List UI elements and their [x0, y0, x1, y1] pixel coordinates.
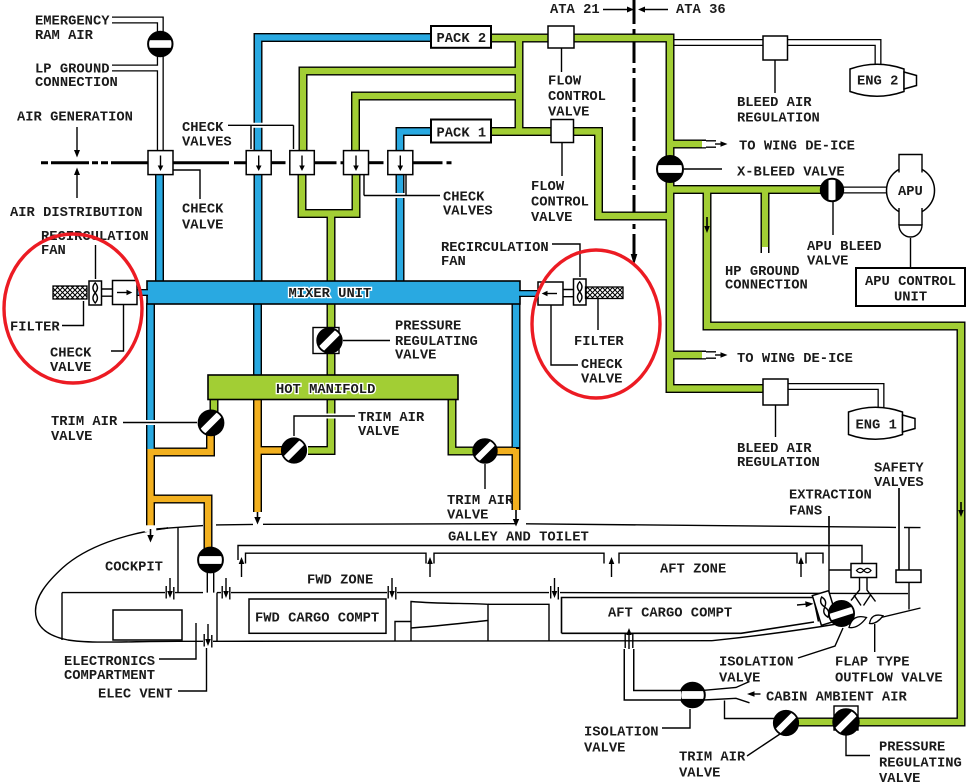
svg-text:FAN: FAN	[41, 244, 66, 259]
svg-text:EXTRACTION: EXTRACTION	[789, 489, 872, 504]
pipe orange galley riser	[512, 448, 521, 510]
AFT cargo compartment box	[562, 598, 819, 634]
svg-text:TRIM AIR: TRIM AIR	[447, 494, 514, 509]
svg-text:VALVE: VALVE	[531, 211, 572, 226]
valve: X-bleed valve	[657, 156, 683, 182]
svg-text:TRIM AIR: TRIM AIR	[51, 415, 118, 430]
pipe orange cockpit riser	[146, 450, 155, 529]
right assembly connector	[563, 290, 574, 297]
leader bleed air regulation ENG2	[774, 61, 776, 94]
leader flap type outflow valve	[874, 624, 876, 652]
node ATA 21/36 boundary dash-dot line	[633, 0, 636, 254]
pipe orange fwd zone riser	[253, 398, 262, 512]
vent symbol fwd zone floor	[388, 578, 396, 600]
svg-text:VALVE: VALVE	[182, 219, 223, 234]
wire cabin ambient air duct (white pipe)	[629, 649, 681, 695]
svg-text:RAM AIR: RAM AIR	[35, 29, 94, 44]
svg-text:APU BLEED: APU BLEED	[807, 240, 882, 255]
svg-text:REGULATING: REGULATING	[879, 756, 962, 771]
pipe blue PACK1 supply riser	[400, 132, 431, 153]
valve: APU bleed valve (vertical band)	[821, 179, 843, 201]
pipe blue below check valve 1	[155, 173, 164, 282]
flow control valve box (pack 2)	[548, 26, 574, 48]
svg-text:ISOLATION: ISOLATION	[719, 656, 794, 671]
wire branch to TAV4	[725, 701, 775, 719]
svg-text:COCKPIT: COCKPIT	[105, 561, 163, 576]
svg-text:VALVE: VALVE	[50, 361, 91, 376]
cabin air duct segment 3	[619, 553, 797, 563]
pipe green PACK2 output to X-bleed and ENG1 bleed regulation	[491, 38, 764, 389]
svg-text:VALVE: VALVE	[719, 671, 760, 686]
vent arrow up into aft cargo	[625, 628, 633, 649]
wing box fairing right	[488, 604, 549, 641]
engine ENG 1	[849, 407, 916, 439]
svg-text:CHECK: CHECK	[182, 121, 224, 136]
leader trim air valve left	[123, 420, 197, 425]
fuselage nose outline	[36, 528, 179, 642]
svg-text:AIR GENERATION: AIR GENERATION	[17, 111, 133, 126]
leader safety valves	[898, 488, 900, 570]
leader X-bleed valve	[684, 168, 722, 170]
check valve box 2	[246, 151, 271, 175]
vent symbol at x226 floor	[222, 578, 230, 600]
svg-text:TRIM AIR: TRIM AIR	[679, 751, 746, 766]
outflow isolation valve (tilted striped circle)	[828, 601, 855, 626]
svg-text:CABIN AMBIENT AIR: CABIN AMBIENT AIR	[766, 691, 907, 706]
svg-text:ATA 21: ATA 21	[550, 3, 600, 18]
pipe green wing de-ice stub lower	[670, 351, 706, 360]
valve: pressure regulating valve PRV1 (white square + striped circle)	[313, 328, 342, 354]
pipe blue mixer right stub	[519, 290, 539, 297]
svg-text:FLOW: FLOW	[548, 74, 582, 89]
svg-text:VALVES: VALVES	[874, 476, 924, 491]
svg-text:CHECK: CHECK	[182, 203, 224, 218]
mixer unit bar	[147, 281, 520, 304]
wire ENG1 bleed duct (white)	[788, 387, 881, 409]
svg-text:BLEED AIR: BLEED AIR	[737, 442, 812, 457]
outflow isolation fan (tilted)	[812, 591, 837, 626]
left assembly connector	[102, 289, 113, 296]
open end caps (white patches)	[702, 141, 707, 147]
svg-text:ISOLATION: ISOLATION	[584, 726, 659, 741]
leader trim air valve middle	[294, 416, 355, 436]
PACK 2 box	[431, 26, 491, 48]
riser arrow 1	[239, 557, 245, 577]
wire emergency ram air white duct	[112, 20, 160, 152]
pipe green PACK1 line to FCV1	[491, 127, 551, 136]
isolation valve outlet taper to cabin air inlet	[704, 682, 750, 691]
e-bay aft partition	[216, 593, 218, 642]
leader FCV2	[561, 49, 563, 73]
leader trim air valve TAV3	[484, 464, 486, 489]
svg-text:CHECK: CHECK	[581, 358, 623, 373]
check valve box 1 (on air generation line)	[148, 151, 173, 175]
svg-text:AIR DISTRIBUTION: AIR DISTRIBUTION	[10, 206, 142, 221]
svg-text:AFT CARGO COMPT: AFT CARGO COMPT	[608, 607, 732, 622]
outflow duct V	[854, 595, 871, 606]
pipe blue mixer left downcomer	[146, 303, 155, 452]
highlight ellipse left (red)	[4, 234, 142, 383]
left check valve (recirculation)	[113, 281, 138, 305]
right filter F2	[586, 287, 624, 299]
svg-text:VALVE: VALVE	[879, 772, 920, 784]
leader check valves right	[364, 175, 440, 196]
valve: trim air valve TAV1	[199, 410, 224, 435]
pipe green HP ground connection stub	[761, 190, 770, 254]
wing box fairing left step	[395, 622, 411, 642]
leader electronics compartment	[159, 623, 196, 659]
svg-text:REGULATION: REGULATION	[737, 456, 820, 471]
check valve box 3	[290, 151, 315, 175]
valve: hot air shutoff near cockpit	[198, 548, 223, 573]
valve: pressure regulating valve PRV2 (bottom)	[833, 706, 859, 735]
extraction fan outlet funnel	[851, 578, 876, 602]
leader PRV1	[343, 340, 390, 342]
flow arrow in green V2	[704, 217, 710, 233]
pipe green branch at y96 to check valve 4	[356, 96, 520, 152]
leader check valves upper	[228, 125, 294, 149]
arrow orange into galley	[513, 510, 519, 527]
right recirculation assembly: check valve	[538, 282, 563, 305]
fuselage cabin floor	[62, 593, 908, 594]
svg-text:UNIT: UNIT	[894, 290, 927, 305]
APU control unit box	[856, 268, 965, 306]
left recirculation assembly: filter F1	[53, 286, 87, 299]
color fills for pipes	[491, 38, 764, 389]
svg-text:APU CONTROL: APU CONTROL	[865, 275, 956, 290]
electronics compartment box	[113, 610, 182, 640]
leader isolation valve lower	[662, 709, 690, 728]
leader APU control unit	[910, 238, 912, 267]
wire APU duct (white)	[843, 187, 888, 194]
pipe blue PACK2 supply riser	[258, 38, 431, 153]
vent symbol aft zone floor	[551, 578, 559, 600]
svg-text:GALLEY AND TOILET: GALLEY AND TOILET	[448, 530, 589, 545]
svg-text:PRESSURE: PRESSURE	[879, 741, 945, 756]
svg-text:VALVE: VALVE	[447, 509, 488, 524]
flow arrow in green V3	[958, 502, 964, 517]
svg-text:APU: APU	[898, 185, 923, 200]
svg-text:VALVE: VALVE	[51, 430, 92, 445]
svg-text:TO WING DE-ICE: TO WING DE-ICE	[739, 140, 855, 155]
arrow cabin ambient air	[747, 691, 761, 697]
svg-text:COMPARTMENT: COMPARTMENT	[64, 669, 155, 684]
wire wing de-ice connector upper	[706, 141, 716, 147]
hot manifold bar	[208, 375, 458, 400]
riser arrow 2	[427, 557, 433, 577]
svg-text:REGULATION: REGULATION	[737, 112, 820, 127]
leader filter left	[62, 301, 84, 326]
svg-text:AFT ZONE: AFT ZONE	[660, 563, 726, 578]
pipe green crossfeed T branch down	[515, 38, 524, 132]
extraction fan duct vertical	[828, 516, 830, 593]
svg-text:TO WING DE-ICE: TO WING DE-ICE	[737, 352, 853, 367]
svg-text:FLAP TYPE: FLAP TYPE	[835, 656, 910, 671]
leader trim air valve TAV4	[747, 734, 780, 756]
svg-text:CHECK: CHECK	[443, 190, 485, 205]
check valve box 4	[344, 151, 369, 175]
svg-text:TRIM AIR: TRIM AIR	[358, 411, 425, 426]
wing box fairing main	[411, 602, 488, 642]
fuselage cockpit partition	[177, 528, 179, 593]
svg-text:X-BLEED VALVE: X-BLEED VALVE	[737, 166, 845, 181]
air generation arrow down	[74, 127, 80, 158]
svg-text:CONTROL: CONTROL	[548, 90, 606, 105]
valve: isolation valve (bottom)	[680, 683, 705, 708]
pipe orange TAV1 outlet	[150, 434, 211, 452]
svg-text:FWD ZONE: FWD ZONE	[307, 573, 373, 588]
fuselage belly line	[178, 640, 712, 643]
valve: trim air valve TAV3	[473, 439, 497, 463]
arrow orange into fwd zone	[254, 512, 260, 525]
wire ENG2 bleed duct (white)	[674, 39, 763, 46]
svg-text:FILTER: FILTER	[574, 335, 624, 350]
pipe green PRV drop to hot manifold and TAV2	[308, 398, 331, 451]
safety valve riser lines	[898, 488, 900, 570]
svg-text:PRESSURE: PRESSURE	[395, 320, 461, 335]
riser arrow 4	[798, 557, 804, 577]
ATA 21 arrow	[603, 7, 634, 13]
svg-text:FAN: FAN	[441, 255, 466, 270]
ATA 36 arrow	[638, 7, 668, 13]
air distribution arrow up	[74, 168, 80, 199]
svg-text:VALVE: VALVE	[679, 766, 720, 781]
APU body	[887, 154, 935, 237]
svg-text:BLEED AIR: BLEED AIR	[737, 96, 812, 111]
flap type outflow valve petals	[849, 617, 867, 628]
extraction fan box (with infinity symbol)	[851, 564, 877, 578]
svg-text:RECIRCULATION: RECIRCULATION	[441, 241, 549, 256]
pipe green hot manifold to TAV3	[452, 398, 474, 451]
arrow into outflow fan	[797, 601, 814, 607]
FWD cargo compartment box	[249, 599, 386, 633]
svg-text:FWD CARGO COMPT: FWD CARGO COMPT	[255, 612, 379, 627]
svg-text:ENG 2: ENG 2	[857, 75, 898, 90]
leader filter right	[597, 299, 599, 330]
svg-text:CHECK: CHECK	[50, 347, 92, 362]
leader check valve label (box1)	[173, 170, 200, 199]
leader check valve left assembly	[111, 305, 124, 352]
svg-text:VALVE: VALVE	[581, 372, 622, 387]
svg-text:CONNECTION: CONNECTION	[725, 279, 808, 294]
cabin air duct segment 4	[806, 553, 823, 563]
svg-text:ATA 36: ATA 36	[676, 3, 726, 18]
PACK 1 box	[431, 120, 491, 143]
highlight ellipse right (red)	[532, 250, 660, 398]
svg-text:PACK 2: PACK 2	[437, 32, 487, 47]
leader extraction fans	[828, 516, 830, 544]
pipe blue mixer mid downcomer	[253, 303, 262, 376]
svg-text:PACK 1: PACK 1	[437, 126, 487, 141]
elec vent symbol on belly	[204, 624, 212, 648]
check valve box 5	[388, 151, 413, 175]
left recirculation fan	[89, 281, 102, 305]
svg-text:MIXER UNIT: MIXER UNIT	[289, 287, 372, 302]
wire AIR GENERATION dashed manifold line	[41, 161, 148, 164]
svg-text:REGULATING: REGULATING	[395, 335, 478, 350]
valve: trim air valve TAV2	[282, 438, 306, 462]
svg-text:CONTROL: CONTROL	[531, 195, 589, 210]
valve: trim air valve TAV4 (bottom)	[774, 711, 798, 735]
pipe green long run to bottom pressure regulating valve	[707, 190, 961, 723]
svg-text:HP GROUND: HP GROUND	[725, 265, 800, 280]
leader bleed air regulation ENG1	[775, 406, 777, 438]
bleed air regulation box ENG1	[763, 379, 788, 405]
svg-text:VALVES: VALVES	[182, 136, 232, 151]
svg-text:ENG 1: ENG 1	[856, 419, 897, 434]
leader recirculation fan left	[95, 245, 97, 279]
svg-text:OUTFLOW VALVE: OUTFLOW VALVE	[835, 671, 943, 686]
vent symbol cockpit floor	[166, 578, 174, 600]
fuselage tail belly	[881, 608, 921, 618]
svg-text:FILTER: FILTER	[10, 321, 60, 336]
pipe green hot manifold to TAV1	[210, 398, 219, 412]
svg-text:ELEC VENT: ELEC VENT	[98, 688, 173, 703]
bleed air regulation box ENG2	[763, 36, 788, 60]
svg-text:VALVE: VALVE	[807, 254, 848, 269]
svg-text:VALVE: VALVE	[395, 349, 436, 364]
cabin air duct segment 1	[246, 553, 427, 563]
pipe blue mixer left stub	[136, 289, 148, 296]
pipe green X-bleed to APU bleed valve	[670, 185, 823, 194]
svg-text:CONNECTION: CONNECTION	[35, 76, 118, 91]
pipe green wing de-ice stub upper	[670, 140, 706, 149]
right recirculation fan	[574, 279, 587, 305]
svg-text:VALVE: VALVE	[548, 106, 589, 121]
svg-text:VALVE: VALVE	[358, 425, 399, 440]
pipe orange TAV3 outlet	[496, 447, 516, 456]
leader elec vent	[178, 648, 207, 691]
wire wing de-ice connector lower	[706, 352, 716, 358]
svg-text:HOT MANIFOLD: HOT MANIFOLD	[276, 383, 375, 398]
leader check valve right assembly	[551, 306, 578, 366]
leader FCV1	[561, 143, 563, 176]
fuselage radome bulkhead	[61, 593, 63, 640]
svg-text:SAFETY: SAFETY	[874, 462, 924, 477]
pipe green branch at y71 to check valve 3	[303, 71, 519, 152]
valve: emergency ram air (black circle, white horizontal band)	[148, 32, 172, 56]
duct below cockpit shutoff valve	[207, 572, 213, 593]
cabin air duct segment 2	[434, 553, 604, 563]
arrow orange into cockpit	[147, 529, 153, 543]
riser arrow 3	[609, 557, 615, 577]
engine ENG 2	[850, 64, 917, 96]
svg-text:ELECTRONICS: ELECTRONICS	[64, 655, 155, 670]
svg-text:FANS: FANS	[789, 504, 822, 519]
svg-text:EMERGENCY: EMERGENCY	[35, 15, 110, 30]
pipe green below check valves 3+4 merge	[302, 173, 356, 214]
cabin ceiling line	[238, 546, 862, 565]
safety valve box	[896, 570, 921, 582]
skin gap at cockpit air inlet	[145, 525, 157, 532]
leader recirculation fan right	[552, 244, 580, 277]
pipe blue mixer right downcomer	[512, 303, 521, 448]
leader isolation valve upper	[798, 628, 843, 658]
flow control valve box (pack 1)	[551, 120, 574, 143]
leader PRV2	[846, 735, 870, 756]
pipe orange TAV2 outlet	[256, 446, 282, 455]
svg-text:VALVES: VALVES	[443, 205, 493, 220]
svg-text:VALVE: VALVE	[584, 741, 625, 756]
svg-text:FLOW: FLOW	[531, 180, 565, 195]
fuselage top skin	[145, 526, 203, 531]
wire LP ground connection white duct	[112, 65, 158, 72]
leader APU bleed valve	[832, 202, 834, 235]
